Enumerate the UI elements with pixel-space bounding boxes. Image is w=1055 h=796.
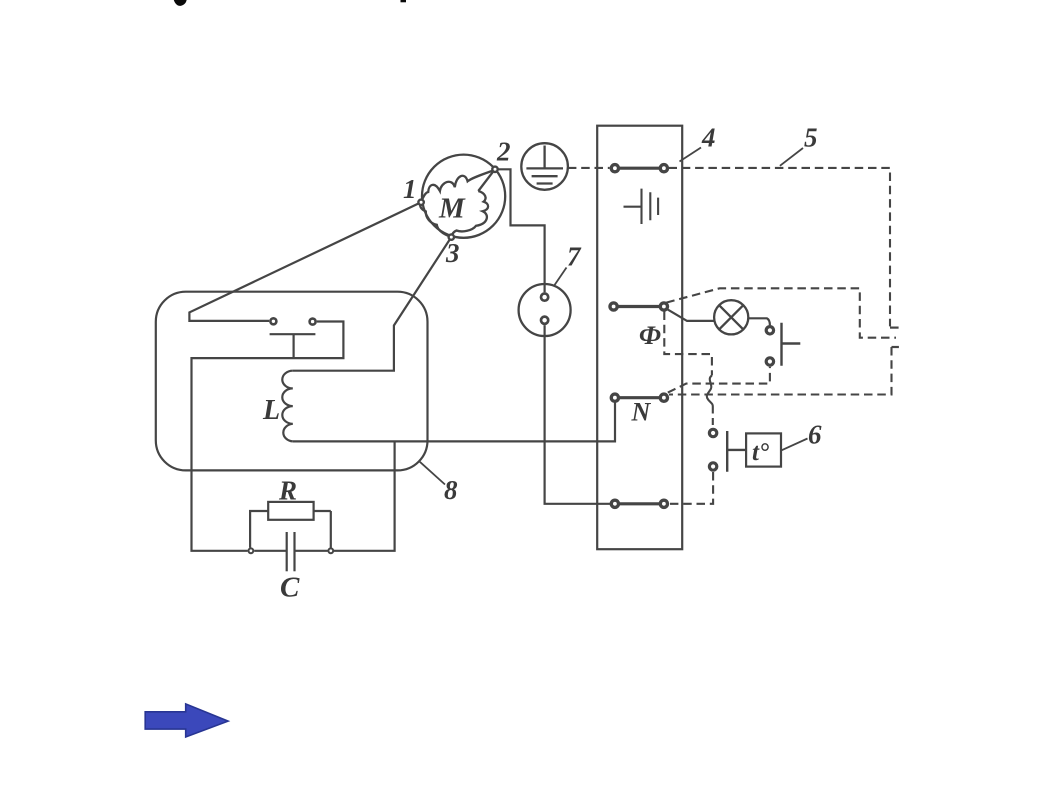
dashed wire: thermostat bottom to lower terminal row [670,472,713,504]
svg-text:R: R [278,476,297,506]
terminal bottom row right contact [660,500,667,507]
dashed wire: F terminal down to thermostat [664,312,712,376]
thermostat bottom contact [709,463,716,470]
wire: motor terminal 2 to plug, via two bends [495,169,545,292]
door switch bottom contact [766,358,773,365]
thermostat top contact [709,429,716,436]
blue arrow [145,704,228,737]
lamp circle [714,300,748,334]
terminal row 4 right contact [660,165,667,172]
plug pin top [541,294,548,301]
svg-text:C: C [280,572,300,604]
svg-text:Ф: Ф [639,321,661,350]
wire: motor terminal 3 diagonal to coil L top [293,237,452,371]
thermal switch blade stem [293,334,295,357]
svg-text:6: 6 [808,420,822,450]
cut-off title letter fragment (descender of "р") [401,0,407,2]
wire hop S-curve over crossing dashed lines [707,376,713,407]
dashed wire: hop to thermostat top contact [712,407,714,428]
leader line to label 8 [420,462,445,485]
dashed wire: connector bottom down and left to N terminal [669,347,892,395]
node junction circle right [328,548,333,553]
motor terminal 1 [418,200,423,205]
plug symbol circle 7 [519,284,571,336]
terminal row F left contact [610,303,617,310]
connector top tick [890,327,899,329]
dashed wire: earthing circle to terminal row 4 [568,167,610,169]
motor terminal 2 [492,167,497,172]
earthing symbol circle [521,143,568,190]
node junction circle left [249,548,254,553]
thermal switch right contact [310,319,316,325]
terminal row N left contact [611,394,618,401]
thermal switch left contact [270,318,276,324]
terminal row F bar [618,305,659,308]
plug pin bottom [541,317,548,324]
door switch top contact [766,327,773,334]
terminal row N right contact [660,394,667,401]
svg-text:2: 2 [496,137,511,167]
filter capacitor-to-case symbol [624,189,659,224]
motor inner winding line from terminal 2 [478,170,494,191]
terminal row N bar [620,396,660,399]
terminal row F right contact [660,303,667,310]
inductor L coil bumps [282,371,293,442]
wire: coil bottom to N terminal [293,402,615,441]
capacitor C right plate [293,532,295,571]
door switch actuator bracket [782,323,801,366]
resistor R leads [250,511,331,548]
capacitor C left plate [286,532,288,571]
svg-text:7: 7 [567,242,582,272]
leader line to label 4 [680,148,702,162]
terminal row 4 left contact [611,165,618,172]
wire: motor terminal 1 diagonal into casing to thermal switch [189,202,421,321]
thermal switch blade bar [270,333,316,335]
cut-off title letter fragment (descender of "у") [174,0,187,6]
svg-text:5: 5 [804,123,818,153]
leader line to label 5 [780,148,803,166]
dashed wire: F terminal up over lamp to connector middle [666,288,896,337]
thermostat actuator bracket [727,431,746,472]
svg-text:L: L [262,395,280,426]
connector bottom tick [892,346,899,348]
svg-text:8: 8 [444,475,458,505]
resistor R body [268,502,313,520]
terminal bottom row bar [620,502,660,505]
thermostat box t [746,433,781,466]
compressor casing rounded rectangle 8 [156,292,428,471]
lamp switch blade from F terminal [667,309,715,321]
wire: node to capacitor plates [254,550,327,552]
wire: lamp to door switch top contact [748,318,770,325]
terminal row 4 bar [620,167,660,170]
motor terminal 3 [449,234,454,239]
wire: right node up to coil-bottom line [334,441,395,550]
leader line to label 6 [782,439,808,451]
lamp cross [719,305,743,329]
svg-text:1: 1 [403,174,417,204]
svg-text:3: 3 [445,238,460,268]
wire: plug bottom to lower terminal row [545,325,610,504]
svg-text:N: N [631,398,652,427]
svg-text:4: 4 [701,123,716,153]
dashed wire: N terminal to door switch bottom contact [668,367,770,393]
svg-text:M: M [438,193,466,225]
wire: thermal switch right contact loop down-left to R/C [192,322,344,551]
terminal block rectangle [597,126,682,550]
motor winding cloud [421,170,494,202]
earthing symbol stem and bars [526,146,563,184]
terminal bottom row left contact [611,500,618,507]
motor circle M [422,155,505,238]
leader line to label 7 [554,268,567,287]
svg-text:t°: t° [752,439,769,466]
dashed wire 5: row 4 right, to right-side connector top [669,168,891,327]
